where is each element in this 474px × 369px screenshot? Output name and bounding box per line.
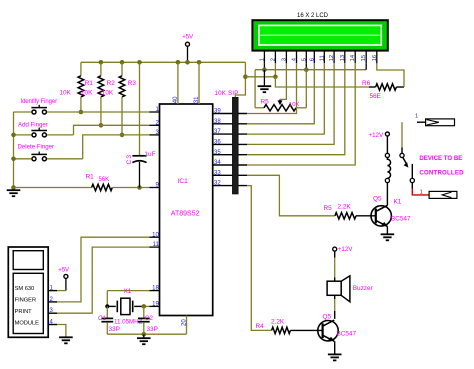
svg-text:R5: R5 [324,205,333,212]
capacitor C2 33P [143,306,145,318]
op-amp IC1 AT89S52 body [160,104,213,316]
svg-text:Buzzer: Buzzer [353,285,374,292]
power +12V relay [385,132,389,136]
junction +5V-pin2 [243,75,248,80]
svg-text:R5: R5 [261,98,270,105]
pin 39 wire [213,113,247,115]
svg-text:Q5: Q5 [323,313,332,320]
resistor R4 2.2K [272,327,291,333]
junction gnd-C2 [142,332,147,337]
svg-text:BC547: BC547 [337,330,357,337]
wire SMpin4 [48,324,57,326]
junction bus-+5V [185,60,190,65]
resistor R3 [121,62,123,76]
svg-text:37: 37 [214,129,221,135]
relay K1 coil [385,153,389,157]
resistor R1 56K [92,184,113,190]
svg-text:+12V: +12V [369,132,384,139]
junction LCDpin5-gnd [304,67,309,72]
svg-text:16: 16 [372,55,378,61]
ground Q5 relay [386,227,388,234]
wire SMpin2 [48,301,57,303]
transistor Q5 buzzer driver [318,321,338,341]
pin 34 wire [213,164,247,166]
svg-text:33P: 33P [147,326,158,333]
svg-text:56E: 56E [370,93,381,100]
svg-text:C1: C1 [98,315,107,322]
svg-text:10K: 10K [102,90,114,97]
power +5V SM630 [64,274,68,278]
wire R6 to LCD pin16 [396,86,404,88]
svg-text:33: 33 [214,170,221,176]
svg-text:39: 39 [214,109,221,115]
wire pot-right [305,70,307,108]
svg-text:2: 2 [270,58,276,61]
svg-text:3: 3 [281,58,287,61]
svg-text:C3: C3 [126,154,133,165]
junction bus-R2 [99,60,104,65]
transistor Q5 relay driver [371,206,391,226]
svg-text:56K: 56K [99,177,110,183]
wire +5V row to R6 [275,77,369,87]
wire pot-left [254,70,256,108]
capacitor C1 33P [106,306,108,318]
junction rail-add [11,133,16,138]
svg-text:+5V: +5V [58,267,69,273]
junction bus-C3 [137,60,142,65]
junction LCDpin1-gnd [262,67,267,72]
wire LCD ground row [255,69,366,71]
wire data4 SIP-LCD [247,63,334,144]
svg-text:10K: 10K [289,102,299,108]
svg-text:R6: R6 [362,80,371,87]
svg-text:X1: X1 [124,288,132,295]
wire pin1 stub ext [263,63,265,69]
svg-text:R2: R2 [107,80,116,87]
svg-text:Identify Finger: Identify Finger [21,99,58,105]
svg-text:Q5: Q5 [373,196,382,203]
svg-text:DEVICE TO BE: DEVICE TO BE [419,155,462,162]
wire data1 SIP-LCD [247,63,297,113]
svg-text:AT89S52: AT89S52 [171,211,200,218]
ground crystal [143,334,145,338]
crystal X1 11.05MHZ [107,305,116,307]
wire +5V bus [81,61,246,63]
wire pin15 stub ext [365,63,367,69]
wire data6 SIP-LCD [247,63,355,165]
junction R2-pin2row [99,123,104,128]
wire pin32 to buzzer driver [247,186,272,331]
svg-text:10K: 10K [81,90,93,97]
wire left rail [13,112,15,190]
svg-text:FINGER: FINGER [15,298,36,304]
svg-text:34: 34 [214,160,221,166]
svg-text:2.2K: 2.2K [271,318,285,325]
svg-text:2.2K: 2.2K [338,204,352,211]
ground LCD pin1 [263,70,265,86]
svg-text:14: 14 [350,54,356,61]
pin 35 wire [213,154,247,156]
svg-text:IC1: IC1 [178,178,189,185]
svg-text:15: 15 [361,55,367,61]
svg-text:11: 11 [319,55,325,61]
junction X1 right [142,304,147,309]
wire data5 SIP-LCD [247,63,345,155]
capacitor C3 1uF [139,62,141,155]
pin 38 wire [213,123,247,125]
pin 31 top [198,62,200,104]
wire reset-row-left [14,187,92,189]
wire identify-row [14,111,32,113]
wire reset-row-right [112,187,149,189]
svg-text:32: 32 [214,181,221,187]
wire SMpin1 [48,290,57,292]
junction X1 left [105,304,109,308]
junction bus-pin31 [197,60,202,65]
wire NO-to-CON2 [412,189,429,195]
potentiometer R5 10K [255,107,264,109]
SM630 fingerprint module [8,247,48,337]
svg-text:12: 12 [329,55,335,61]
svg-text:Delete Finger: Delete Finger [18,144,55,151]
svg-text:R1: R1 [85,80,94,87]
pin 33 wire [213,174,247,176]
svg-text:K1: K1 [394,199,402,206]
resistor R1 10K [80,62,82,76]
resistor R5 2.2K [335,213,356,219]
wire +5V branch down [235,62,245,97]
wire data3 SIP-LCD [247,63,324,134]
buzzer [327,281,341,295]
svg-text:PRINT: PRINT [15,309,33,315]
ground Q5 buzzer [334,341,336,354]
svg-text:R4: R4 [256,323,265,330]
resistor R2 10K [100,62,102,76]
junction R3-pin3row [120,133,125,138]
wire crystal gnd row [107,333,186,335]
wire buzzer-collector [334,295,336,299]
svg-text:SM 630: SM 630 [15,286,35,292]
svg-text:35: 35 [214,150,221,156]
wire data2 SIP-LCD [247,63,314,124]
svg-text:+5V: +5V [182,35,193,41]
power +5V terminal [186,42,190,46]
svg-text:+12V: +12V [338,246,353,253]
LCD module [252,20,387,50]
LCD pins 1-16 [263,51,265,64]
pin 36 wire [213,143,247,145]
svg-text:5: 5 [301,58,307,61]
svg-text:1uF: 1uF [145,151,156,158]
svg-text:MODULE: MODULE [15,321,40,327]
pin 37 wire [213,133,247,135]
wire pot wiper to LCD pin3 [280,63,286,99]
svg-text:13: 13 [340,55,346,61]
svg-text:1: 1 [259,58,265,61]
svg-text:10K: 10K [60,90,72,97]
wire delete-row [14,158,32,160]
wire pin18 row [107,290,149,292]
svg-text:C2: C2 [145,315,154,322]
junction rail-delete [11,157,16,162]
power +12V buzzer [333,247,337,251]
pin 40 top [177,62,179,104]
wire SMpin3 [48,312,57,314]
ground left rail [7,189,21,191]
resistor RN 10K SIP [232,97,238,194]
wire +5V to LCD pin2 [245,76,275,78]
svg-text:BC547: BC547 [391,216,411,223]
junction bus-R3 [120,60,125,65]
junction reset-C3 [137,185,142,190]
junction R1-pin1row [79,110,84,115]
relay switch NO contact [411,164,413,178]
svg-text:R1: R1 [86,173,95,180]
junction bus-pin40 [176,60,181,65]
svg-text:6: 6 [309,58,315,61]
wire add-row [14,134,32,136]
svg-text:1: 1 [420,189,423,195]
junction LCDpin2 [273,75,278,80]
svg-text:Add Finger: Add Finger [18,122,48,129]
pin 32 wire [213,185,247,187]
svg-text:1: 1 [415,114,418,120]
svg-text:16 X 2 LCD: 16 X 2 LCD [297,13,329,19]
relay switch common [401,122,403,147]
svg-text:31: 31 [194,96,200,103]
wire pin19 row [144,305,150,307]
svg-text:CONTROLLED: CONTROLLED [419,169,464,176]
svg-text:R3: R3 [128,80,137,87]
svg-text:33P: 33P [109,326,120,333]
wire pin5 stub ext [305,63,307,69]
svg-text:36: 36 [214,140,221,146]
ground SM630 [59,336,73,338]
wire pin20 down [186,316,188,335]
svg-text:40: 40 [173,96,179,103]
junction rail-reset [11,185,16,190]
svg-text:38: 38 [214,119,221,125]
resistor R6 56E [376,84,397,90]
wire pin33 to relay driver [247,175,335,216]
